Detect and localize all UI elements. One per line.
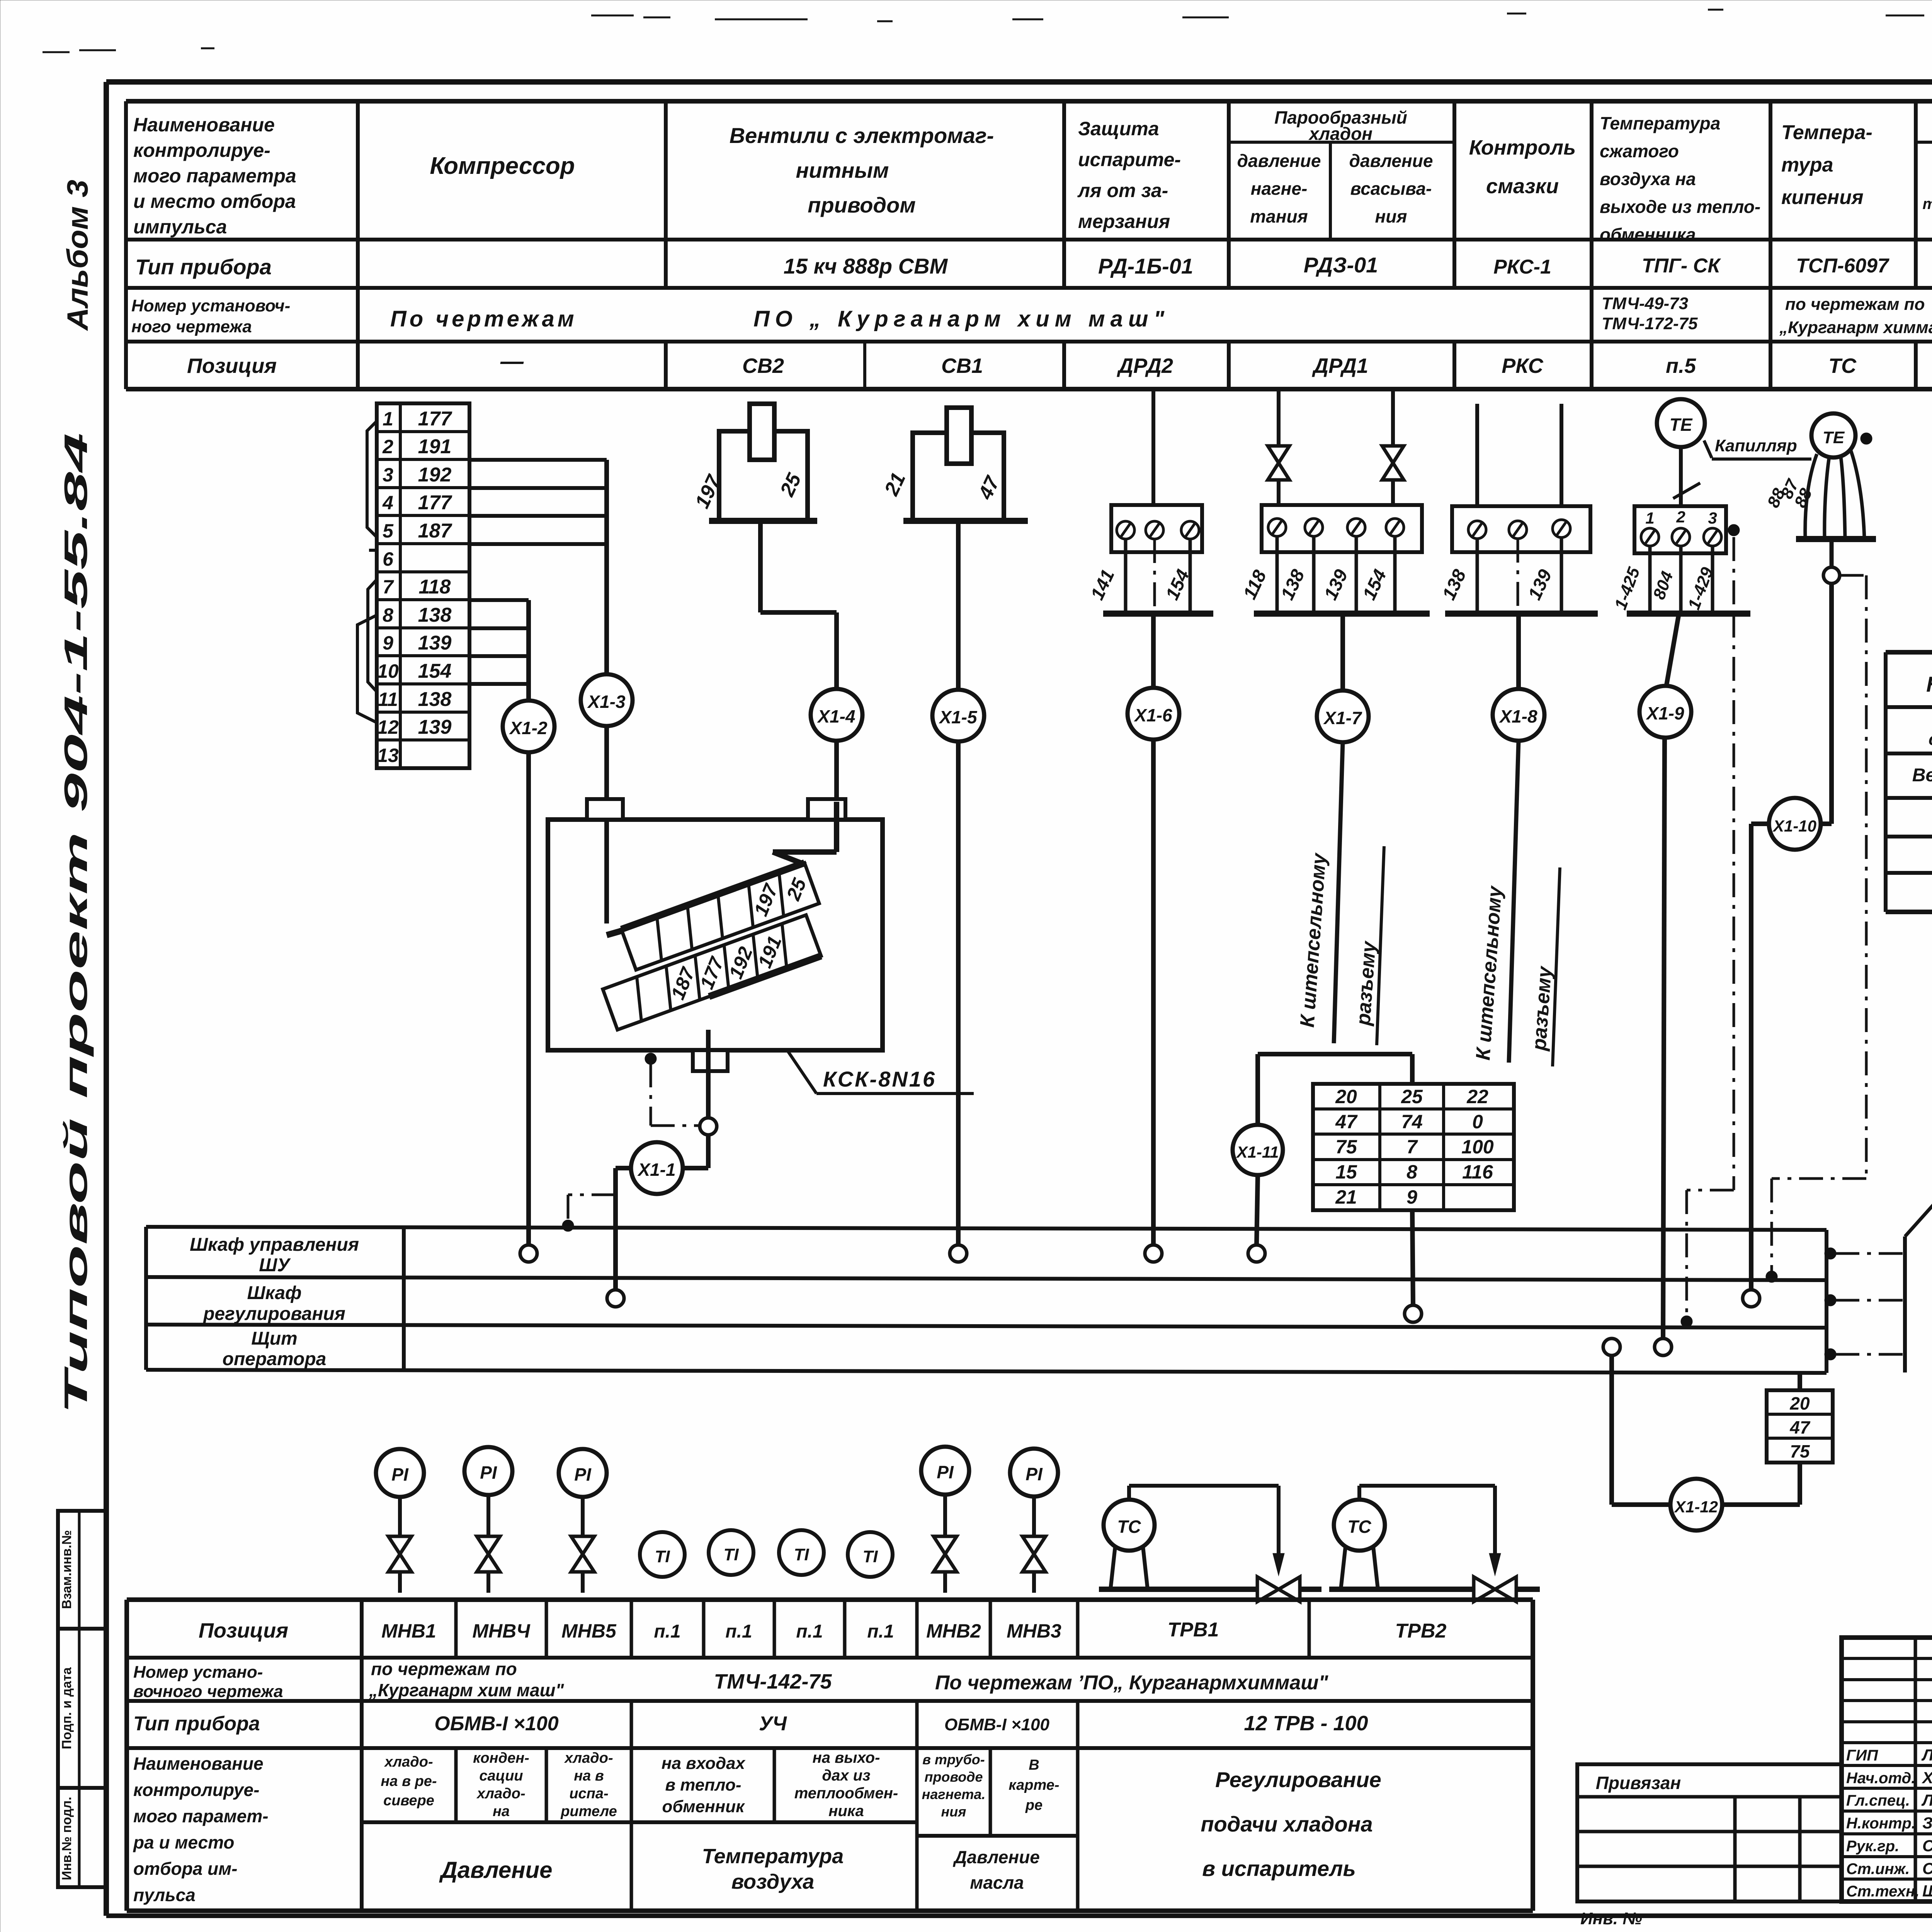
svg-text:п.1: п.1	[867, 1621, 894, 1642]
row2 terminal circles	[607, 1290, 1760, 1322]
svg-text:Темпера-: Темпера-	[1781, 121, 1872, 144]
svg-text:Шкаф: Шкаф	[247, 1283, 301, 1303]
svg-text:мого парамет-: мого парамет-	[133, 1806, 269, 1826]
svg-text:118: 118	[419, 576, 451, 598]
connector X1-7	[1317, 690, 1369, 742]
svg-text:выходе из тепло-: выходе из тепло-	[1600, 197, 1760, 217]
svg-text:Альбом 3: Альбом 3	[61, 180, 94, 331]
svg-text:TI: TI	[794, 1545, 809, 1564]
svg-text:Давление: Давление	[952, 1847, 1040, 1867]
wire ДРД1 to X1-7	[1340, 614, 1345, 690]
svg-text:п.5: п.5	[1666, 354, 1696, 378]
pressure relay ДРД1 box	[1262, 389, 1422, 552]
wire X1-2 to cabinet row1	[526, 752, 531, 1245]
svg-text:6: 6	[383, 548, 394, 570]
temperature sensor TE1	[1657, 399, 1705, 447]
wire X1-9 to cabinet row3	[1663, 738, 1665, 1338]
svg-text:обменника: обменника	[1600, 224, 1696, 245]
svg-text:Седых: Седых	[1922, 1837, 1932, 1855]
svg-text:ТМЧ-172-75: ТМЧ-172-75	[1602, 314, 1698, 333]
thermometer TI п.1 d	[848, 1532, 893, 1577]
manometer МНВ2 PI with valve	[921, 1447, 969, 1593]
connector X1-2	[503, 701, 554, 752]
svg-text:Типовой проект 904-1-55.84: Типовой проект 904-1-55.84	[58, 433, 94, 1414]
wire X1-3 link into strips	[607, 930, 623, 935]
capillary label	[1673, 436, 1811, 498]
svg-text:в тепло-: в тепло-	[665, 1776, 741, 1794]
svg-text:по чертежам по: по чертежам по	[371, 1659, 517, 1679]
svg-text:X1-7: X1-7	[1323, 708, 1362, 728]
svg-text:138: 138	[418, 688, 452, 711]
wire X1-12 to cabinet row3	[1612, 1355, 1670, 1505]
svg-text:22: 22	[1466, 1086, 1488, 1107]
svg-text:оператора: оператора	[223, 1349, 327, 1369]
svg-text:PI: PI	[937, 1462, 954, 1482]
svg-text:Склярова: Склярова	[1922, 1859, 1932, 1878]
svg-text:21: 21	[1335, 1186, 1357, 1208]
svg-text:МНВ2: МНВ2	[926, 1620, 981, 1642]
svg-text:ля от за-: ля от за-	[1077, 180, 1168, 201]
svg-text:хладон: хладон	[1308, 124, 1372, 144]
svg-text:воздуха: воздуха	[731, 1870, 815, 1893]
svg-text:„Курганарм химмаш": „Курганарм химмаш"	[1779, 318, 1932, 337]
junction box КСК-8	[548, 799, 883, 1071]
svg-text:Шуст: Шуст	[1922, 1882, 1932, 1900]
svg-text:По чертежам ’ПО„ Курганармхим: По чертежам ’ПО„ Курганармхиммаш"	[935, 1672, 1328, 1694]
wires rows 7-10 to X1-2	[469, 600, 529, 701]
svg-text:МНВЧ: МНВЧ	[472, 1620, 531, 1642]
table 20 47 75	[1767, 1390, 1833, 1463]
terminal block XT rows 1-13	[377, 403, 469, 768]
svg-text:ДРД1: ДРД1	[1312, 354, 1368, 378]
svg-text:Щит: Щит	[251, 1328, 297, 1349]
svg-text:кипения: кипения	[1781, 186, 1864, 209]
connector X1-12	[1670, 1479, 1722, 1531]
manometer МНВ3 PI with valve	[1010, 1449, 1058, 1593]
ДРД2 wires to bus bar	[1087, 539, 1213, 614]
svg-text:Компрессор: Компрессор	[430, 153, 575, 179]
wire X1-7 to plug connector (rotated label)	[1296, 742, 1384, 1045]
number table 5x3	[1313, 1084, 1514, 1210]
temperature sensor TE2	[1811, 413, 1855, 457]
svg-text:рителе: рителе	[560, 1803, 617, 1820]
wire X1-4 jog inside box	[773, 802, 837, 865]
svg-text:ПО „ Курганарм хим маш": ПО „ Курганарм хим маш"	[753, 306, 1170, 332]
pressure relay ДРД2 box	[1111, 389, 1202, 552]
spec table grid	[1886, 652, 1932, 912]
svg-text:Номер устано-: Номер устано-	[133, 1663, 263, 1682]
svg-text:13: 13	[377, 745, 399, 766]
svg-text:по чертежам по: по чертежам по	[1785, 295, 1925, 314]
svg-text:20: 20	[1789, 1393, 1810, 1413]
svg-text:воздуха на: воздуха на	[1600, 169, 1696, 189]
svg-text:2: 2	[382, 436, 393, 457]
ground loop label Контур заземления	[1905, 1158, 1932, 1236]
svg-text:тания: тания	[1250, 206, 1308, 226]
svg-text:15 кч 888р СВМ: 15 кч 888р СВМ	[784, 254, 948, 278]
svg-text:давление: давление	[1237, 151, 1321, 171]
svg-text:ния: ния	[1375, 206, 1407, 226]
svg-text:Давление: Давление	[439, 1857, 552, 1883]
svg-text:мерзания: мерзания	[1078, 211, 1170, 232]
svg-text:контролируе-: контролируе-	[133, 139, 270, 161]
svg-text:испарите-: испарите-	[1078, 149, 1181, 170]
shield dash-dot TE2 to line2	[1766, 575, 1866, 1282]
svg-text:на в ре-: на в ре-	[381, 1773, 437, 1789]
svg-text:п.1: п.1	[654, 1621, 680, 1642]
svg-text:Левинский: Левинский	[1921, 1791, 1932, 1809]
lubrication control РКС box	[1452, 404, 1590, 552]
svg-text:Наименование: Наименование	[133, 1753, 264, 1774]
wire X1-5 to cabinet row1	[956, 742, 961, 1245]
svg-text:КСК-8N16: КСК-8N16	[823, 1067, 936, 1091]
svg-text:давление: давление	[1349, 151, 1433, 171]
svg-text:Гл.спец.: Гл.спец.	[1846, 1792, 1910, 1809]
svg-text:ТМЧ-142-75: ТМЧ-142-75	[714, 1670, 832, 1693]
svg-text:контролируе-: контролируе-	[133, 1780, 259, 1800]
svg-text:X1-8: X1-8	[1498, 706, 1537, 726]
wire junction to X1-1	[683, 1135, 708, 1168]
svg-text:пульса: пульса	[133, 1885, 196, 1905]
svg-text:10: 10	[377, 660, 399, 682]
svg-text:Подп. и дата: Подп. и дата	[60, 1667, 74, 1749]
svg-text:154: 154	[418, 660, 452, 682]
svg-text:п.1: п.1	[796, 1621, 823, 1642]
svg-text:Золотарева: Золотарева	[1922, 1814, 1932, 1832]
svg-text:Христофоров: Христофоров	[1922, 1769, 1932, 1787]
svg-text:Наименование: Наименование	[1926, 672, 1932, 696]
svg-text:47: 47	[1335, 1111, 1358, 1133]
svg-text:и место отбора: и место отбора	[133, 190, 296, 212]
svg-text:X1-1: X1-1	[637, 1160, 675, 1180]
svg-text:75: 75	[1790, 1441, 1810, 1461]
svg-text:Нач.отд.: Нач.отд.	[1846, 1770, 1915, 1787]
svg-text:TI: TI	[723, 1545, 739, 1564]
wire TE2 to X1-10	[1821, 583, 1832, 824]
wire X1-4 to KCK box notch	[834, 741, 839, 802]
row3 terminal circles	[1603, 1338, 1672, 1355]
solenoid valve СВ2	[691, 404, 817, 521]
svg-text:0: 0	[1472, 1111, 1483, 1133]
TE2 capillary bundle to bus	[1764, 433, 1876, 539]
svg-text:ОБМВ-I ×100: ОБМВ-I ×100	[944, 1715, 1050, 1734]
svg-text:Наименование: Наименование	[133, 114, 275, 136]
п.5 wires to bus bar	[1611, 546, 1750, 614]
svg-text:сации: сации	[479, 1768, 523, 1784]
svg-text:ре: ре	[1025, 1797, 1043, 1813]
ДРД1 wires to bus bar	[1240, 536, 1430, 614]
manometer МНВ5 PI with valve	[559, 1449, 607, 1593]
wire ДРД2 to X1-6	[1151, 614, 1156, 688]
svg-text:Леонов: Леонов	[1921, 1746, 1932, 1764]
svg-text:ТСП-6097: ТСП-6097	[1796, 255, 1889, 277]
thermometer TI п.1 a	[640, 1532, 685, 1577]
svg-text:Привязан: Привязан	[1596, 1773, 1681, 1793]
svg-text:Контроль: Контроль	[1469, 136, 1576, 159]
svg-text:приводом: приводом	[808, 193, 916, 217]
svg-text:Рук.гр.: Рук.гр.	[1846, 1838, 1899, 1855]
svg-text:ДРД2: ДРД2	[1117, 354, 1173, 378]
row1 terminal circles	[520, 1245, 1265, 1262]
svg-text:—: —	[500, 348, 524, 374]
shield dash-dot КСК	[645, 1053, 699, 1126]
wire TE2 down to junction	[1830, 539, 1834, 567]
svg-text:8: 8	[1406, 1161, 1417, 1183]
svg-text:2: 2	[1676, 508, 1685, 526]
svg-text:проводе: проводе	[924, 1769, 983, 1785]
svg-text:РКС-1: РКС-1	[1493, 256, 1551, 278]
manometer МНВ1 PI with valve	[376, 1449, 424, 1593]
svg-text:8: 8	[383, 604, 393, 626]
connector X1-5	[932, 690, 984, 742]
svg-text:PI: PI	[391, 1464, 409, 1485]
svg-text:По чертежам: По чертежам	[390, 306, 577, 332]
svg-text:ра и место: ра и место	[133, 1832, 235, 1852]
svg-text:Инв. №: Инв. №	[1580, 1909, 1642, 1928]
svg-text:ТМЧ-49-73: ТМЧ-49-73	[1602, 294, 1688, 313]
svg-text:СВ2: СВ2	[742, 354, 784, 378]
connector X1-1	[631, 1142, 683, 1194]
svg-text:импульса: импульса	[133, 216, 227, 238]
svg-text:мого параметра: мого параметра	[133, 165, 296, 187]
svg-text:Вентиль запорный: Вентиль запорный	[1912, 765, 1932, 786]
svg-text:смазки: смазки	[1486, 175, 1559, 198]
solenoid valve СВ1	[880, 408, 1028, 521]
svg-text:187: 187	[418, 520, 452, 542]
svg-text:X1-6: X1-6	[1133, 705, 1172, 725]
КСК slanted terminal strips	[603, 863, 821, 1030]
junction circle below КСК	[700, 1118, 717, 1135]
ground stubs with dots	[1825, 1236, 1905, 1372]
connector X1-10	[1769, 798, 1821, 850]
svg-text:15: 15	[1335, 1161, 1357, 1183]
svg-text:4: 4	[382, 492, 393, 514]
svg-text:X1-3: X1-3	[587, 692, 626, 712]
svg-text:отбора им-: отбора им-	[133, 1859, 238, 1879]
svg-text:177: 177	[418, 492, 452, 514]
wire X1-10 to cabinet row2	[1751, 824, 1769, 1290]
svg-text:СВ1: СВ1	[941, 354, 983, 378]
svg-text:УЧ: УЧ	[759, 1713, 787, 1735]
expansion valve ТРВ1 with ТС sensor	[1099, 1486, 1321, 1602]
connector X1-3	[581, 674, 633, 726]
svg-text:9: 9	[383, 632, 393, 654]
svg-text:PI: PI	[480, 1463, 497, 1483]
svg-text:сжатого: сжатого	[1600, 141, 1679, 161]
thermometer TI п.1 c	[779, 1530, 824, 1575]
svg-text:X1-11: X1-11	[1236, 1143, 1279, 1161]
svg-text:25: 25	[1401, 1086, 1423, 1107]
wire strip to bottom notch	[706, 1030, 711, 1118]
connector X1-9	[1639, 686, 1691, 738]
wire РКС to X1-8	[1516, 614, 1521, 689]
terminal block jumper arcs	[367, 421, 377, 537]
svg-text:Регулирование: Регулирование	[1215, 1767, 1381, 1792]
svg-text:3: 3	[383, 464, 393, 486]
wire X1-11 to number table	[1258, 1054, 1412, 1125]
svg-text:обменник: обменник	[662, 1797, 746, 1816]
svg-text:Тип прибора: Тип прибора	[133, 1713, 260, 1735]
svg-text:Тип прибора: Тип прибора	[135, 255, 272, 279]
svg-text:ния: ния	[941, 1804, 966, 1820]
svg-text:дах из: дах из	[822, 1767, 870, 1784]
svg-text:карте-: карте-	[1009, 1777, 1059, 1793]
svg-text:ТРВ1: ТРВ1	[1168, 1619, 1219, 1641]
connection box п.5 (pins 1 2 3)	[1634, 506, 1740, 553]
label КСК-8№16	[788, 1052, 974, 1094]
wire number table to cabinet row2	[1412, 1210, 1413, 1305]
svg-text:всасыва-: всасыва-	[1350, 179, 1432, 199]
РКС wires to bus bar	[1439, 537, 1598, 614]
svg-text:PI: PI	[574, 1464, 592, 1485]
svg-text:11: 11	[378, 689, 398, 710]
svg-text:12: 12	[377, 716, 399, 738]
svg-text:3: 3	[1708, 509, 1717, 527]
svg-text:116: 116	[1462, 1161, 1493, 1183]
svg-text:192: 192	[418, 464, 452, 486]
svg-text:Ст.инж.: Ст.инж.	[1846, 1861, 1910, 1878]
connector X1-11	[1233, 1125, 1283, 1175]
cabinet bus lines	[146, 1227, 1827, 1373]
svg-text:РКС: РКС	[1502, 354, 1544, 378]
svg-text:п.1: п.1	[725, 1621, 752, 1642]
svg-text:TI: TI	[862, 1547, 878, 1566]
manometer МНВ4 PI with valve	[464, 1447, 512, 1593]
svg-text:X1-4: X1-4	[816, 706, 855, 726]
svg-text:РДЗ-01: РДЗ-01	[1304, 253, 1378, 277]
bottom table grid	[127, 1600, 1533, 1911]
scan artifacts top edge	[43, 10, 1932, 52]
connector X1-4	[811, 689, 862, 741]
svg-text:12 ТРВ - 100: 12 ТРВ - 100	[1244, 1712, 1368, 1735]
svg-text:тура: тура	[1781, 154, 1833, 176]
wire table to X1-12	[1723, 1463, 1800, 1505]
svg-text:Инв.№ подл.: Инв.№ подл.	[60, 1797, 74, 1880]
svg-text:139: 139	[418, 632, 452, 654]
wire СВ1 to X1-5	[956, 521, 961, 690]
svg-text:X1-9: X1-9	[1645, 703, 1684, 723]
svg-text:РД-1Б-01: РД-1Б-01	[1098, 254, 1193, 278]
svg-text:МНВ1: МНВ1	[381, 1620, 436, 1642]
shield dash-dot from п.5 to line3	[1681, 537, 1734, 1327]
junction circle TE2 shield	[1823, 567, 1840, 583]
svg-text:на выхо-: на выхо-	[813, 1749, 880, 1766]
svg-text:Позиция: Позиция	[199, 1619, 288, 1642]
svg-text:9: 9	[1406, 1186, 1417, 1208]
svg-text:Температура: Температура	[1600, 113, 1720, 133]
svg-text:В: В	[1029, 1757, 1039, 1773]
connector X1-6	[1128, 688, 1179, 740]
svg-text:Ст.техн.: Ст.техн.	[1846, 1883, 1919, 1900]
svg-text:хладо-: хладо-	[384, 1754, 433, 1770]
svg-text:в испаритель: в испаритель	[1202, 1856, 1355, 1881]
svg-text:20: 20	[1335, 1086, 1357, 1107]
svg-text:100: 100	[1461, 1136, 1494, 1158]
svg-text:хладо-: хладо-	[564, 1750, 613, 1766]
svg-text:„Курганарм хим маш": „Курганарм хим маш"	[369, 1680, 565, 1700]
thermometer TI п.1 b	[709, 1530, 753, 1575]
svg-text:соединительная: соединительная	[1929, 730, 1932, 749]
title block grid	[1842, 1638, 1932, 1901]
wire п.5 to X1-9	[1666, 614, 1679, 687]
svg-text:Позиция: Позиция	[187, 354, 277, 378]
svg-text:на: на	[493, 1803, 510, 1820]
svg-text:испа-: испа-	[569, 1786, 608, 1802]
shield dash-dot X1-1 to line1	[562, 1195, 616, 1231]
svg-text:ника: ника	[828, 1803, 864, 1820]
wire X1-1 to cabinet row2	[616, 1168, 631, 1290]
svg-text:нагне-: нагне-	[1251, 179, 1308, 199]
svg-text:подачи хладона: подачи хладона	[1201, 1812, 1372, 1836]
wire X1-6 to cabinet row1	[1151, 740, 1156, 1245]
svg-text:конден-: конден-	[473, 1750, 529, 1766]
svg-text:X1-12: X1-12	[1674, 1498, 1718, 1516]
svg-text:7: 7	[1406, 1136, 1418, 1158]
svg-text:Капилляр: Капилляр	[1715, 436, 1797, 455]
svg-text:ТС: ТС	[1347, 1517, 1371, 1537]
header table grid	[126, 101, 1932, 389]
svg-text:на в: на в	[574, 1768, 604, 1784]
svg-text:ного чертежа: ного чертежа	[131, 317, 252, 336]
svg-text:X1-5: X1-5	[938, 707, 978, 727]
expansion valve ТРВ2 with ТС sensor	[1329, 1486, 1540, 1602]
wire X1-11 to cabinet row1	[1257, 1175, 1258, 1245]
привязан table	[1577, 1764, 1842, 1901]
svg-text:177: 177	[418, 408, 452, 430]
svg-text:47: 47	[1789, 1417, 1811, 1437]
svg-text:регулирования: регулирования	[202, 1304, 345, 1324]
svg-text:ОБМВ-I ×100: ОБМВ-I ×100	[434, 1713, 559, 1735]
svg-text:PI: PI	[1026, 1464, 1043, 1484]
svg-text:МНВ5: МНВ5	[561, 1620, 617, 1642]
connector X1-8	[1493, 689, 1544, 741]
svg-text:теплообмен-: теплообмен-	[794, 1785, 898, 1802]
svg-text:ТС: ТС	[1117, 1517, 1141, 1537]
wire cabinet to 20-47-75 table	[1798, 1373, 1802, 1391]
svg-text:139: 139	[418, 716, 452, 738]
wire TE1 to box п.5	[1679, 447, 1683, 506]
svg-text:ГИП: ГИП	[1846, 1747, 1878, 1764]
margin stamp boxes	[58, 1511, 106, 1887]
svg-text:Шкаф управления: Шкаф управления	[190, 1235, 359, 1255]
svg-text:масла: масла	[970, 1872, 1024, 1893]
wire СВ2 to X1-4	[760, 521, 837, 689]
svg-text:74: 74	[1401, 1111, 1423, 1133]
svg-text:X1-10: X1-10	[1772, 817, 1816, 835]
svg-text:5: 5	[383, 520, 394, 542]
svg-text:сивере: сивере	[383, 1793, 434, 1809]
svg-text:ШУ: ШУ	[259, 1255, 291, 1276]
svg-text:1: 1	[383, 408, 393, 430]
svg-text:ТЕ: ТЕ	[1670, 415, 1693, 435]
svg-text:1: 1	[1645, 509, 1654, 527]
svg-text:Взам.инв.№: Взам.инв.№	[60, 1530, 74, 1609]
svg-text:X1-2: X1-2	[509, 718, 548, 738]
svg-text:75: 75	[1335, 1136, 1357, 1158]
svg-text:138: 138	[418, 604, 452, 626]
svg-text:7: 7	[383, 576, 394, 598]
svg-text:Защита: Защита	[1078, 118, 1159, 139]
svg-text:теплооб-: теплооб-	[1922, 196, 1932, 213]
svg-text:TI: TI	[655, 1547, 670, 1566]
svg-text:Температура: Температура	[702, 1845, 844, 1868]
svg-text:ТС: ТС	[1828, 354, 1857, 378]
wire X1-8 to plug connector (rotated label)	[1472, 741, 1560, 1066]
svg-text:нагнета.: нагнета.	[922, 1786, 986, 1802]
svg-text:ТРВ2: ТРВ2	[1395, 1620, 1447, 1642]
wires rows 2-5 to X1-3	[469, 460, 607, 674]
svg-text:в трубо-: в трубо-	[922, 1752, 985, 1767]
